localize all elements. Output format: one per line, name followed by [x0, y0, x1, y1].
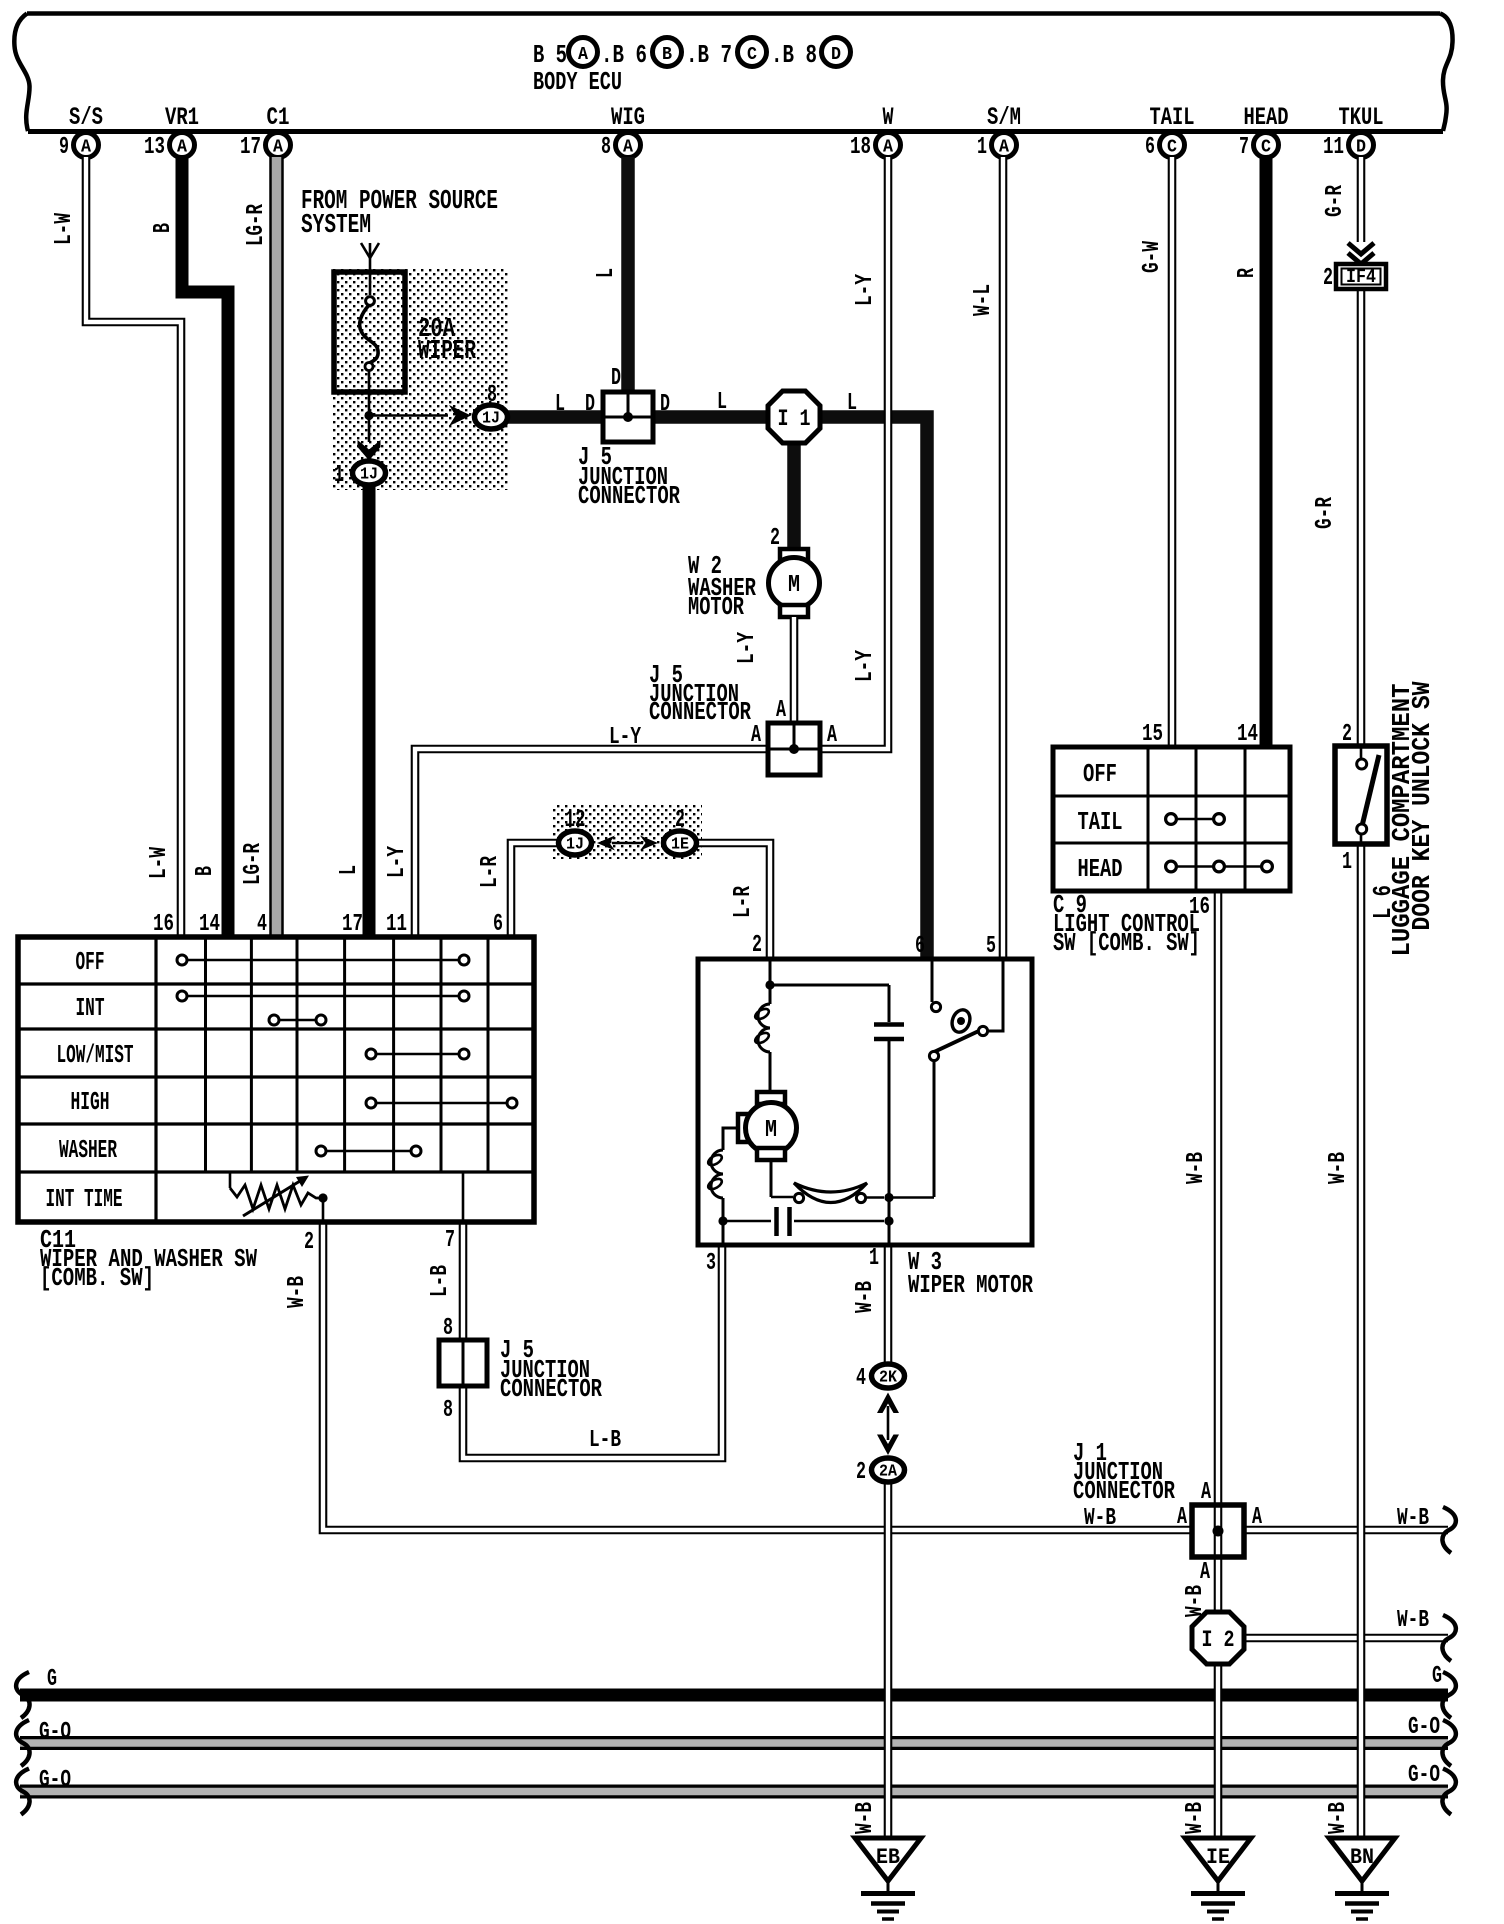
junction connector J5 (L-B line) [439, 1340, 487, 1386]
svg-text:S/S: S/S [69, 103, 103, 132]
halftone shading around 1J-1E junction pair [552, 804, 702, 859]
C9 HEAD contact row [1166, 861, 1273, 872]
label J5 JUNCTION CONNECTOR (washer) [649, 660, 751, 727]
wiper motor capacitor (upper) [874, 985, 904, 1039]
svg-text:OFF: OFF [76, 947, 105, 977]
svg-text:14: 14 [199, 911, 220, 938]
svg-text:S/M: S/M [987, 103, 1021, 132]
svg-text:B 5: B 5 [533, 40, 567, 70]
svg-text:.B 7: .B 7 [686, 40, 732, 70]
C11 internal wire to pin 7 [462, 1172, 465, 1222]
svg-text:A: A [273, 138, 283, 158]
label J5 JUNCTION CONNECTOR (bottom) [500, 1335, 602, 1404]
junction connector J1 [1192, 1505, 1244, 1557]
C11 pin numbers above box [153, 911, 503, 938]
wire W-B from C11 pin 2 to J1 junction connector [323, 1222, 1194, 1530]
switch C9 light control switch box [1053, 747, 1290, 891]
svg-text:15: 15 [1142, 721, 1163, 748]
label 20A WIPER [418, 315, 477, 367]
svg-text:A: A [999, 138, 1009, 158]
svg-text:IE: IE [1206, 1845, 1230, 1870]
svg-text:A: A [1177, 1504, 1187, 1531]
svg-text:G-R: G-R [1312, 497, 1339, 529]
svg-text:4: 4 [257, 911, 267, 938]
ECU terminal HEAD pin 7C [1239, 103, 1289, 161]
svg-text:1J: 1J [360, 465, 378, 484]
connector 1J (to junction block) [475, 405, 508, 429]
wire W-B from wiper motor pin 1 to connector 2K [884, 1245, 893, 1363]
junction connector J5 (WIG line) [603, 392, 653, 442]
svg-text:B: B [150, 223, 177, 233]
svg-text:2: 2 [856, 1459, 866, 1486]
break mark G-O lower left [16, 1769, 29, 1815]
svg-text:2: 2 [304, 1229, 314, 1256]
C11 wire from resistor node to pin 2 [322, 1198, 325, 1222]
svg-text:7: 7 [445, 1227, 455, 1254]
svg-text:L: L [555, 391, 565, 418]
label J5 JUNCTION CONNECTOR (top) [578, 442, 680, 511]
svg-text:6: 6 [1145, 134, 1155, 161]
ECU terminal WIG pin 8A [601, 103, 645, 161]
svg-text:1E: 1E [671, 835, 689, 854]
labels A around washer J5 [751, 697, 837, 749]
svg-text:INT TIME: INT TIME [46, 1184, 123, 1214]
svg-text:11: 11 [386, 911, 407, 938]
svg-text:L-Y: L-Y [852, 274, 879, 306]
connector IF4 [1336, 264, 1386, 289]
svg-text:C: C [747, 45, 757, 65]
svg-text:W: W [883, 103, 894, 132]
svg-text:CONNECTOR: CONNECTOR [578, 481, 680, 511]
svg-text:G-W: G-W [1139, 241, 1166, 273]
wire LG-R from C1 pin 17 to C11 pin 4 (grey core) [269, 157, 284, 937]
svg-text:W-B: W-B [852, 1281, 879, 1313]
wiper motor brush crescent [771, 1159, 884, 1203]
wire L below 1J connector to C11 pin 17 [363, 484, 376, 937]
wire L-B from C11 pin 7 to J5 junction connector [459, 1222, 468, 1342]
connector 1J lower [353, 461, 386, 485]
C11 LOW/MIST contact row [366, 1049, 469, 1059]
svg-text:4: 4 [856, 1365, 866, 1392]
wiper motor park switch [929, 959, 1003, 1197]
svg-text:17: 17 [342, 911, 363, 938]
label C11 WIPER AND WASHER SW [40, 1225, 257, 1293]
svg-text:A: A [578, 45, 588, 65]
svg-text:WIPER MOTOR: WIPER MOTOR [908, 1270, 1033, 1300]
wire W-B from luggage switch pin 1 to ground BN [1357, 844, 1366, 1837]
svg-text:L-R: L-R [730, 886, 757, 918]
svg-text:A: A [81, 138, 91, 158]
label C9 LIGHT CONTROL SW [1053, 890, 1200, 958]
wire B from VR1 pin 13 to C11 pin 14 (thick black) [182, 157, 228, 937]
wire G-R from TKUL pin 11 to IF4 [1357, 157, 1366, 242]
svg-text:TKUL: TKUL [1339, 103, 1384, 132]
svg-text:D: D [585, 391, 595, 418]
svg-text:SYSTEM: SYSTEM [301, 211, 371, 241]
wire L from I1 down to washer motor pin 2 [787, 440, 801, 552]
wiper motor node at pin 1 [884, 1216, 893, 1245]
wiper motor pin labels [706, 932, 996, 1277]
connector 1E [664, 831, 697, 855]
svg-text:LOW/MIST: LOW/MIST [57, 1040, 134, 1070]
svg-text:G-O: G-O [39, 1767, 71, 1794]
svg-text:A: A [1201, 1479, 1211, 1506]
svg-text:G-O: G-O [1408, 1762, 1440, 1789]
svg-text:L-R: L-R [477, 856, 504, 888]
svg-text:L: L [593, 268, 620, 278]
svg-text:2K: 2K [879, 1368, 897, 1387]
svg-text:WASHER: WASHER [59, 1135, 117, 1165]
svg-text:W-B: W-B [1397, 1607, 1429, 1634]
svg-text:LG-R: LG-R [240, 843, 267, 885]
connector 2A [872, 1458, 905, 1482]
svg-text:A: A [1252, 1504, 1262, 1531]
arrow to connector 1J pin 8 [373, 405, 471, 426]
svg-text:W-B: W-B [1183, 1152, 1210, 1184]
wire L-R from C11 pin 6 up to 1J connector [511, 843, 560, 937]
svg-text:L-B: L-B [589, 1427, 621, 1454]
label W2 WASHER MOTOR [688, 551, 756, 622]
wire L-Y from C11 pin 11 up and right to washer J5 connector [415, 749, 770, 937]
svg-text:W-B: W-B [284, 1276, 311, 1308]
wire W-B from connector 2A to ground EB [884, 1483, 893, 1837]
connector 2K [872, 1364, 905, 1388]
svg-text:A: A [623, 138, 633, 158]
break mark G-O upper right [1442, 1720, 1455, 1766]
wire L from J5 junction connector to I1 [645, 410, 772, 424]
junction connector J5 (washer, pins A) [768, 723, 820, 775]
svg-text:BODY ECU: BODY ECU [533, 67, 622, 97]
ECU terminal TAIL pin 6C [1145, 103, 1195, 161]
svg-text:HEAD: HEAD [1244, 103, 1289, 132]
C11 INT contact row (short) [269, 1015, 326, 1025]
ECU terminal VR1 pin 13A [144, 103, 199, 161]
svg-text:D: D [831, 45, 841, 65]
connector I1 [768, 391, 820, 443]
wiper motor armature coil (lower) [707, 1128, 738, 1221]
ECU terminal W pin 18A [850, 103, 901, 161]
wire L from fuse junction through 1J to J5 junction connector [508, 410, 612, 424]
svg-text:IF4: IF4 [1346, 266, 1376, 288]
svg-text:SW [COMB. SW]: SW [COMB. SW] [1053, 928, 1200, 958]
svg-text:CONNECTOR: CONNECTOR [649, 697, 751, 727]
body ECU connector outline [14, 14, 1452, 132]
svg-text:W-B: W-B [1397, 1505, 1429, 1532]
svg-text:EB: EB [876, 1845, 900, 1870]
svg-text:9: 9 [59, 134, 69, 161]
C11 pin numbers below box [304, 1227, 455, 1256]
label J1 JUNCTION CONNECTOR [1073, 1438, 1175, 1506]
wire G-R from IF4 to luggage switch pin 2 [1357, 288, 1366, 746]
ground IE [1185, 1838, 1251, 1919]
svg-text:W-L: W-L [970, 284, 997, 316]
svg-text:L-Y: L-Y [384, 846, 411, 878]
svg-text:R: R [1234, 268, 1261, 278]
svg-text:5: 5 [986, 933, 996, 960]
svg-text:A: A [751, 722, 761, 749]
svg-text:L-Y: L-Y [609, 724, 641, 751]
wire W-B from I2 to right edge [1240, 1634, 1448, 1643]
ECU title: B 5(A).B 6(B).B 7(C).B 8(D) [533, 38, 851, 71]
svg-text:[COMB. SW]: [COMB. SW] [40, 1263, 154, 1293]
svg-text:LG-R: LG-R [243, 204, 270, 246]
svg-text:.B 8: .B 8 [771, 40, 817, 70]
svg-text:L-W: L-W [51, 213, 78, 245]
C11 INT TIME variable resistor [230, 1172, 322, 1216]
svg-text:.B 6: .B 6 [601, 40, 647, 70]
svg-text:A: A [177, 138, 187, 158]
break mark G-O upper left [16, 1720, 29, 1766]
svg-text:2A: 2A [879, 1462, 897, 1481]
svg-text:G-O: G-O [1408, 1714, 1440, 1741]
break mark G-O lower right [1442, 1769, 1455, 1815]
halftone shading around 20A WIPER fuse [332, 269, 508, 490]
svg-text:G: G [47, 1666, 57, 1693]
svg-text:17: 17 [240, 134, 261, 161]
svg-text:TAIL: TAIL [1150, 103, 1195, 132]
svg-text:L: L [717, 389, 727, 416]
svg-text:8: 8 [443, 1397, 453, 1424]
svg-text:A: A [827, 722, 837, 749]
wire G-W from TAIL pin 6 to C9 pin 15 [1168, 157, 1177, 747]
svg-text:1J: 1J [482, 409, 500, 428]
C9 TAIL contact row [1166, 814, 1225, 825]
svg-text:7: 7 [1239, 134, 1249, 161]
wire L-Y from washer J5 connector right toward W pin 18 [818, 157, 888, 749]
svg-text:I 1: I 1 [778, 406, 811, 432]
svg-text:D: D [660, 391, 670, 418]
svg-text:WIPER: WIPER [418, 337, 477, 367]
svg-text:BN: BN [1350, 1845, 1374, 1870]
svg-text:C: C [1261, 138, 1271, 158]
svg-text:1: 1 [869, 1245, 879, 1272]
break mark G bus right [1442, 1672, 1455, 1718]
C11 OFF contact row [177, 955, 469, 965]
label W3 WIPER MOTOR [908, 1247, 1033, 1300]
switch C11 wiper and washer switch box [18, 937, 534, 1222]
wire L from WIG pin 8 down to J5 junction connector [621, 157, 635, 400]
wire W-L from S/M pin 1 to wiper motor pin 5 [999, 157, 1008, 959]
svg-text:G: G [1432, 1663, 1442, 1690]
svg-text:OFF: OFF [1083, 759, 1117, 789]
svg-text:W-B: W-B [1084, 1505, 1116, 1532]
svg-text:1J: 1J [566, 835, 584, 854]
svg-text:1: 1 [1342, 849, 1352, 876]
label LUGGAGE COMPARTMENT DOOR KEY UNLOCK SW (rotated) [1387, 681, 1437, 956]
svg-text:8: 8 [601, 134, 611, 161]
svg-text:TAIL: TAIL [1078, 807, 1123, 837]
svg-text:A: A [1200, 1559, 1210, 1586]
wire L-R from 1E connector to wiper motor pin 2 [696, 843, 770, 959]
svg-text:L-Y: L-Y [852, 650, 879, 682]
arrows between 2K and 2A [877, 1393, 899, 1456]
svg-text:1: 1 [977, 134, 987, 161]
svg-text:13: 13 [144, 134, 165, 161]
wiper motor node at pin 3 [718, 1216, 727, 1225]
ECU terminal S/S pin 9A [59, 103, 103, 161]
wiper motor W3 box [698, 959, 1032, 1245]
C11 INT TIME junction node [318, 1193, 327, 1202]
svg-text:WIG: WIG [611, 103, 645, 132]
svg-text:CONNECTOR: CONNECTOR [1073, 1476, 1175, 1506]
wiper motor M [738, 1092, 797, 1160]
ground EB [855, 1838, 921, 1919]
break mark W-B right (J1 run) [1442, 1507, 1455, 1553]
labels A around J1 [1177, 1479, 1262, 1586]
svg-text:B: B [192, 866, 219, 876]
fuse 20A WIPER [334, 272, 405, 411]
C11 HIGH contact row [366, 1098, 517, 1108]
wire L-B from J5 junction connector to wiper motor pin 3 [463, 1245, 722, 1458]
arrow from power source into fuse [361, 243, 379, 295]
wire L from I1 to wiper motor pin 6 [816, 417, 927, 959]
svg-text:A: A [883, 138, 893, 158]
svg-text:HIGH: HIGH [71, 1087, 110, 1117]
wire R from HEAD pin 7 to C9 pin 14 (thick black) [1260, 157, 1273, 747]
svg-text:D: D [1356, 138, 1366, 158]
svg-text:D: D [611, 365, 621, 392]
svg-text:A: A [776, 697, 786, 724]
wire L-W from S/S pin 9 to C11 pin 16 [86, 157, 181, 937]
C11 WASHER contact row [316, 1146, 421, 1156]
svg-text:VR1: VR1 [165, 103, 199, 132]
labels around J5 junction connector [555, 365, 727, 418]
ground bus G-O (upper) [20, 1736, 1448, 1750]
svg-text:W-B: W-B [1325, 1802, 1352, 1834]
svg-text:L-W: L-W [146, 847, 173, 879]
connector I2 [1192, 1612, 1244, 1664]
svg-text:L: L [336, 865, 363, 875]
ground bus G-O (lower) [20, 1785, 1448, 1799]
svg-text:G-O: G-O [39, 1719, 71, 1746]
wire L-Y washer motor to A junction [790, 617, 799, 725]
svg-text:M: M [765, 1117, 777, 1144]
svg-text:2: 2 [1323, 265, 1333, 292]
svg-text:CONNECTOR: CONNECTOR [500, 1374, 602, 1404]
C9 pin numbers [1142, 721, 1258, 921]
svg-text:INT: INT [76, 993, 105, 1023]
break mark W-B right (I2 run) [1442, 1615, 1455, 1661]
wire W-B from J1 junction connector to right edge [1242, 1526, 1448, 1535]
svg-text:W-B: W-B [852, 1802, 879, 1834]
ECU terminal C1 pin 17A [240, 103, 291, 161]
wiper motor node at capacitor branch [884, 1041, 934, 1221]
wire W-B from C9 pin 16 through J1 and I2 to ground IE [1214, 891, 1223, 1837]
svg-text:G-R: G-R [1322, 185, 1349, 217]
svg-text:2: 2 [752, 932, 762, 959]
svg-text:L-B: L-B [427, 1265, 454, 1297]
ECU terminal S/M pin 1A [977, 103, 1021, 161]
down arrow to connector 1J pin 1 [358, 419, 381, 461]
double arrow between 1J and 1E [597, 836, 658, 851]
double arrow into IF4 [1348, 243, 1374, 264]
svg-text:L: L [847, 390, 857, 417]
svg-text:6: 6 [915, 933, 925, 960]
C11 row labels [46, 947, 134, 1214]
ECU terminal TKUL pin 11D [1323, 103, 1384, 161]
svg-text:3: 3 [706, 1250, 716, 1277]
connector 1J (instrument panel) [559, 831, 592, 855]
svg-text:11: 11 [1323, 134, 1344, 161]
switch L6 luggage compartment door key unlock switch [1335, 746, 1387, 844]
wiper motor internal: junction from pin 2 [765, 959, 889, 990]
C11 INT contact row (long) [177, 991, 469, 1001]
svg-text:C: C [1167, 138, 1177, 158]
svg-text:C1: C1 [267, 103, 290, 132]
svg-text:B: B [662, 45, 672, 65]
wiper motor field coil (upper) [754, 985, 771, 1093]
svg-text:6: 6 [493, 911, 503, 938]
junction node below fuse [364, 411, 373, 420]
ground BN [1329, 1838, 1395, 1919]
svg-text:I 2: I 2 [1202, 1627, 1235, 1653]
svg-text:14: 14 [1237, 721, 1258, 748]
break mark G bus left [16, 1672, 29, 1718]
svg-text:DOOR KEY UNLOCK SW: DOOR KEY UNLOCK SW [1407, 681, 1437, 930]
svg-text:1: 1 [334, 462, 344, 489]
label FROM POWER SOURCE SYSTEM [301, 187, 498, 241]
svg-text:HEAD: HEAD [1078, 854, 1123, 884]
washer motor W2 [769, 549, 820, 617]
svg-text:18: 18 [850, 134, 871, 161]
svg-text:MOTOR: MOTOR [688, 592, 744, 622]
C9 row labels [1078, 759, 1123, 884]
svg-text:W-B: W-B [1325, 1152, 1352, 1184]
svg-text:W-B: W-B [1182, 1802, 1209, 1834]
ground bus G (thick) [20, 1689, 1448, 1702]
svg-text:16: 16 [153, 911, 174, 938]
wiper motor capacitor (bottom) [723, 1207, 884, 1236]
svg-text:M: M [788, 572, 800, 599]
svg-text:L-Y: L-Y [734, 632, 761, 664]
